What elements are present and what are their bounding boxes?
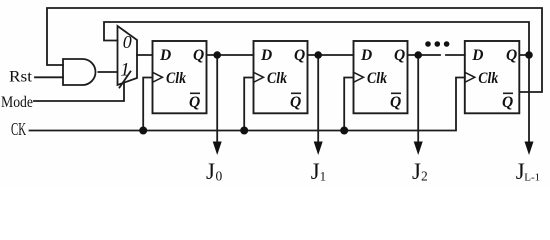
node FF4.Q junction bbox=[525, 51, 533, 59]
svg-text:L-1: L-1 bbox=[524, 172, 540, 184]
node CK tap FF2 bbox=[240, 127, 248, 135]
flip-flop FF4 (last, L-1) bbox=[465, 41, 520, 113]
svg-text:J: J bbox=[311, 159, 320, 184]
svg-text:D: D bbox=[471, 47, 483, 64]
svg-text:1: 1 bbox=[120, 60, 130, 81]
wire FF2 Q to FF3 D bbox=[308, 54, 354, 56]
svg-text:Q: Q bbox=[193, 47, 204, 64]
svg-text:0: 0 bbox=[123, 32, 132, 52]
and-gate U1 bbox=[63, 59, 96, 85]
svg-text:Q: Q bbox=[394, 47, 405, 64]
node CK tap FF1 bbox=[139, 127, 147, 135]
svg-text:J: J bbox=[412, 159, 421, 184]
wire FF1 clk tap bbox=[143, 78, 152, 131]
svg-text:Rst: Rst bbox=[9, 69, 33, 86]
svg-text:Q: Q bbox=[390, 94, 401, 111]
svg-text:0: 0 bbox=[216, 169, 223, 184]
flip-flop FF2 bbox=[254, 41, 308, 113]
svg-text:2: 2 bbox=[421, 169, 428, 184]
svg-text:Clk: Clk bbox=[166, 70, 186, 87]
wire J1 output bbox=[317, 55, 319, 143]
svg-text:1: 1 bbox=[320, 170, 326, 184]
node FF3.Q junction bbox=[414, 51, 422, 59]
wire Rst input bbox=[35, 76, 63, 78]
svg-text:D: D bbox=[360, 47, 372, 64]
node FF1.Q junction bbox=[213, 51, 221, 59]
svg-text:J: J bbox=[206, 159, 215, 184]
mux select line from Mode bbox=[120, 72, 131, 88]
svg-text:Clk: Clk bbox=[267, 70, 287, 87]
node FF2.Q junction bbox=[314, 51, 322, 59]
wire Q-last net (second line y=22) bbox=[104, 22, 529, 55]
wire CK bus bbox=[30, 78, 465, 131]
svg-text:Q: Q bbox=[294, 47, 305, 64]
svg-text:Mode: Mode bbox=[1, 94, 33, 111]
svg-text:Q: Q bbox=[502, 94, 513, 111]
wire J2 output bbox=[417, 55, 419, 143]
svg-text:D: D bbox=[260, 47, 272, 64]
svg-text:Clk: Clk bbox=[367, 70, 387, 87]
wire AND output to mux bbox=[98, 71, 117, 73]
arrowhead JL-1 bbox=[525, 142, 534, 156]
wire JL-1 output bbox=[528, 55, 530, 143]
wire FF3 clk tap bbox=[344, 78, 353, 131]
arrowhead J1 bbox=[314, 142, 323, 156]
svg-text:CK: CK bbox=[11, 119, 26, 139]
arrowhead J0 bbox=[213, 142, 222, 156]
arrowhead J2 bbox=[414, 142, 423, 156]
wire mux output to FF1 D bbox=[137, 54, 153, 56]
wire FF1 Q to FF2 D bbox=[207, 54, 254, 56]
wire J0 output bbox=[216, 55, 218, 143]
svg-text:Q: Q bbox=[189, 94, 200, 111]
wire FF3 Q to FF4 D (with gap under dots) bbox=[408, 54, 441, 56]
wire Mode input bbox=[34, 84, 124, 102]
node CK tap FF3 bbox=[340, 127, 348, 135]
svg-text:D: D bbox=[159, 47, 171, 64]
svg-text:Q: Q bbox=[290, 94, 301, 111]
ellipsis dots between FF3 and FF4 bbox=[425, 41, 431, 47]
flip-flop FF1 bbox=[153, 41, 207, 113]
svg-text:Q: Q bbox=[506, 47, 517, 64]
mux U2 (2-to-1) bbox=[118, 26, 138, 85]
svg-text:Clk: Clk bbox=[478, 70, 498, 87]
flip-flop FF3 bbox=[354, 41, 408, 113]
wire FF2 clk tap bbox=[244, 78, 253, 131]
wire feedback Qbar net (top line y=8) bbox=[47, 8, 542, 92]
